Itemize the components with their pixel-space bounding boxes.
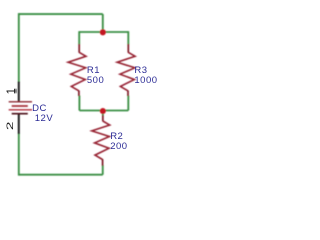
wire left rail lower [18,134,20,176]
battery BT1 plate long 1 [9,101,32,103]
wire bottom horizontal [19,174,103,176]
wire R2 top stub [102,111,104,116]
wire top horizontal [19,13,103,15]
svg-text:1: 1 [6,88,18,94]
resistor R1 pin bottom [78,91,80,97]
wire R3 top [127,31,129,44]
resistor R1 pin top [78,44,80,53]
wire top junction drop [102,14,104,32]
wire R1 top [78,31,80,44]
svg-text:200: 200 [110,141,127,152]
resistor R3 pin bottom [127,91,129,97]
battery BT1 pin top [18,82,20,102]
wire R1 bottom [78,96,80,111]
svg-text:500: 500 [87,75,104,86]
pin number 1 serif [15,89,17,93]
wire bottom rail R1-R3 [79,110,128,112]
resistor R1 zigzag [68,52,86,91]
svg-text:12V: 12V [35,113,54,124]
wire left rail upper [18,13,20,82]
wire R3 bottom [127,96,129,111]
resistor R2 pin bottom [102,159,104,166]
wire R2 bottom [102,165,104,175]
svg-text:2: 2 [4,122,15,131]
battery BT1 pin bottom [18,114,20,134]
wire top rail R1-R3 [79,31,128,33]
junction dot top [100,29,106,35]
resistor R2 pin top [102,115,104,121]
resistor R2 zigzag [92,121,110,160]
resistor R3 zigzag [117,52,135,91]
battery BT1 plate long 2 [9,109,32,111]
junction dot bottom [100,108,106,114]
svg-text:1000: 1000 [134,75,157,86]
battery BT1 plate short 2 [12,113,28,115]
resistor R3 pin top [127,44,129,53]
battery BT1 plate short 1 [12,105,28,107]
